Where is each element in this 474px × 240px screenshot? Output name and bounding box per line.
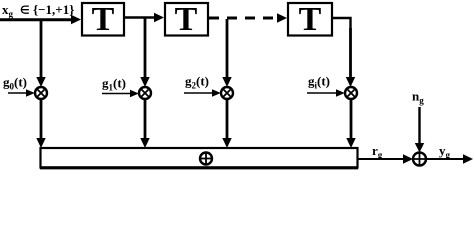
wire M0 to bus [40,99,43,140]
wire output [426,158,465,160]
wire M2 to bus [226,99,229,140]
wire input rail [0,18,74,21]
wire tap i [349,28,352,79]
svg-text:g2(t): g2(t) [185,74,209,91]
wire T1 to T2 [124,16,157,18]
svg-text:∈: ∈ [20,5,30,17]
svg-text:g0(t): g0(t) [3,75,27,92]
wire into multiplier 1 [102,93,132,95]
svg-text:{−1,+1}: {−1,+1} [33,2,74,17]
svg-text:T: T [175,1,198,38]
wire into multiplier 0 [8,92,28,94]
adder in bus [200,153,212,165]
wire bus to adder [358,158,405,160]
svg-text:T: T [92,1,115,38]
svg-text:g1(t): g1(t) [102,76,126,93]
svg-text:T: T [299,1,322,38]
multiplier M2 [221,87,233,99]
wire tap 0 [40,20,43,79]
output adder [413,153,426,166]
delay T2 [165,3,208,36]
wire Mi to bus [350,99,353,140]
summing bus box [41,148,358,168]
wire tap 2 [226,19,229,79]
wire T2 to T3 dashed [209,17,278,20]
delay T3 [288,3,332,36]
delay T1 [82,3,124,36]
wire noise to adder [418,107,420,145]
svg-text:gi(t): gi(t) [308,74,330,91]
wire T3 output corner [332,18,351,30]
wire tap 1 [144,18,147,79]
multiplier M1 [139,87,151,99]
wire into multiplier 2 [184,92,214,94]
multiplier M0 [35,87,47,99]
wire M1 to bus [144,99,147,140]
multiplier Mi [345,87,357,99]
wire into multiplier i [307,92,338,94]
